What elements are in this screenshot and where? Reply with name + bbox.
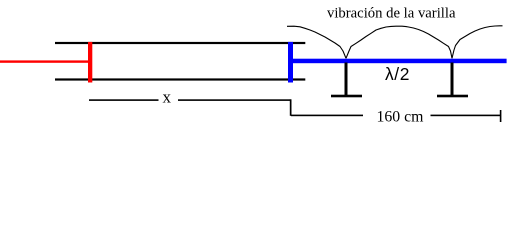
dimension line 160cm: right segment [431,115,502,117]
red piston disc inside tube [88,42,92,83]
dimension line 160cm: left segment [291,115,363,117]
svg-text:160 cm: 160 cm [377,108,425,125]
wave envelope arc left (half) [287,26,346,58]
support 2 post [451,63,454,96]
dimension step down at tube end [290,99,292,116]
wave envelope arc right (half) [452,26,503,59]
support 2 base [437,95,468,98]
svg-text:x: x [163,88,172,107]
wave envelope arc middle (full) [346,26,452,58]
tube top wall [55,42,305,44]
tube bottom wall [55,78,305,80]
blue clamp disc at tube right end [288,42,293,83]
wire: red drive rod entering tube from left [0,60,89,62]
support 1 base [331,95,362,98]
dimension end tick [500,110,502,122]
support 1 post [345,63,348,96]
svg-text:vibración de la varilla: vibración de la varilla [327,5,456,21]
svg-text:λ/2: λ/2 [385,64,410,84]
blue rod (varilla) [291,59,507,64]
dimension line x: right segment [178,99,291,101]
dimension line x: left segment [89,99,159,101]
